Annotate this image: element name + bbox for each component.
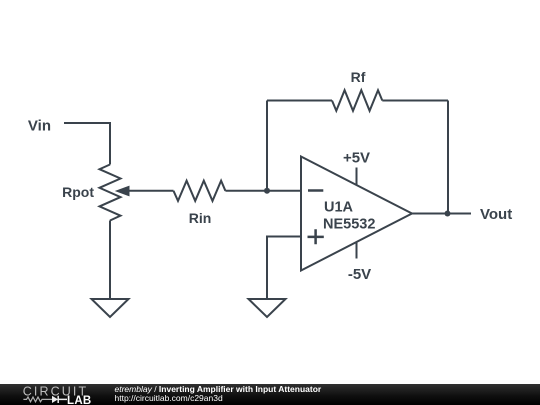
svg-text:NE5532: NE5532 [323,217,375,233]
svg-text:Rpot: Rpot [62,184,94,200]
svg-text:-5V: -5V [348,266,371,283]
node junction at inverting input [264,188,270,194]
wire [266,101,268,191]
resistor Rin [174,181,226,201]
svg-text:Vin: Vin [28,118,51,135]
resistor Rf [332,90,382,111]
wire [64,123,110,165]
footer credit line 2 [115,394,223,403]
CircuitLab logo [0,384,100,405]
svg-text:LAB: LAB [67,395,92,405]
wire [128,190,174,192]
wire [382,100,448,102]
svg-text:Vout: Vout [480,206,512,223]
potentiometer Rpot wiper arrow [115,186,130,197]
svg-text:Rin: Rin [189,210,212,226]
node junction at output [445,211,451,217]
footer credit line 1 [115,385,322,394]
wire [447,101,449,214]
op-amp inverting input minus sign [308,189,323,192]
op-amp U1A triangle [301,157,412,271]
ground [92,299,129,317]
svg-text:+5V: +5V [343,150,370,167]
wire [267,100,332,102]
positive supply stub [356,168,358,186]
wire [225,190,301,192]
potentiometer Rpot body [100,165,121,221]
ground [249,299,286,317]
wire [412,213,471,215]
svg-text:U1A: U1A [324,200,354,216]
svg-text:Rf: Rf [351,69,366,85]
wire [109,221,111,300]
op-amp non-inverting input plus sign [308,229,324,244]
negative supply stub [356,242,358,259]
wire [267,237,301,300]
footer bar [0,384,540,405]
